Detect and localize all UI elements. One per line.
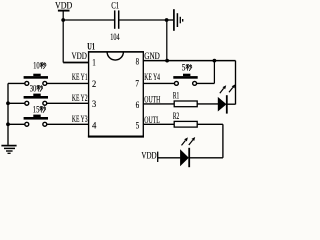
svg-text:KE Y1: KE Y1 bbox=[72, 72, 88, 82]
svg-text:C1: C1 bbox=[111, 1, 119, 11]
svg-text:1: 1 bbox=[92, 57, 96, 68]
svg-text:7: 7 bbox=[135, 79, 139, 90]
svg-text:KE Y4: KE Y4 bbox=[144, 72, 160, 82]
svg-text:VDD: VDD bbox=[55, 1, 73, 11]
svg-text:KE Y2: KE Y2 bbox=[72, 93, 88, 103]
svg-text:VDD: VDD bbox=[72, 51, 88, 61]
svg-text:104: 104 bbox=[110, 32, 120, 42]
svg-text:OUTH: OUTH bbox=[144, 94, 160, 104]
svg-text:4: 4 bbox=[92, 121, 97, 132]
svg-text:VDD: VDD bbox=[141, 151, 157, 161]
svg-text:5: 5 bbox=[182, 62, 186, 72]
svg-text:R2: R2 bbox=[173, 111, 179, 121]
svg-text:GND: GND bbox=[144, 51, 160, 61]
svg-text:5: 5 bbox=[136, 120, 140, 131]
svg-text:OUTL: OUTL bbox=[144, 115, 160, 125]
svg-text:10: 10 bbox=[33, 61, 40, 71]
svg-text:6: 6 bbox=[136, 100, 140, 111]
svg-text:U1: U1 bbox=[87, 42, 95, 52]
svg-text:3: 3 bbox=[92, 99, 96, 110]
svg-text:30: 30 bbox=[30, 83, 37, 93]
svg-text:2: 2 bbox=[92, 79, 96, 90]
svg-text:R1: R1 bbox=[173, 90, 179, 100]
svg-text:KE Y3: KE Y3 bbox=[72, 114, 88, 124]
svg-text:8: 8 bbox=[136, 57, 140, 68]
svg-text:15: 15 bbox=[33, 104, 40, 114]
